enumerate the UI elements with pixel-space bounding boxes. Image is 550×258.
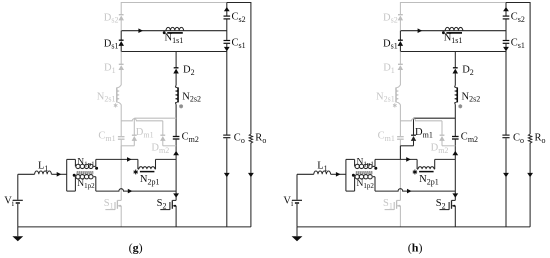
- arrow current Cs1 down (h): [503, 47, 509, 51]
- svg-text:S2: S2: [436, 198, 446, 210]
- wire Dm2 return (h): [442, 145, 455, 147]
- wire N2p1-node (h): [435, 158, 456, 160]
- wire top rail right (h): [506, 2, 530, 4]
- wire Cs2-Cs1 segment (g): [226, 20, 228, 41]
- diode D2 (h): [453, 67, 458, 69]
- wire Ds1 rail (h): [400, 51, 506, 53]
- arrow current S-rail (g): [128, 189, 133, 194]
- svg-text:Ds1: Ds1: [383, 38, 398, 50]
- svg-text:Ds2: Ds2: [383, 12, 398, 24]
- star N2s1 polarity (h): [394, 103, 396, 107]
- wire Ds1 rail (g): [121, 51, 227, 53]
- wire top rail gray (g): [121, 2, 227, 4]
- svg-text:Cs2: Cs2: [232, 12, 246, 24]
- wire Dm2 branch upper (g): [162, 121, 164, 135]
- svg-text:Dm2: Dm2: [431, 142, 449, 154]
- ground (h): [296, 227, 298, 236]
- wire clamp column segment (g): [120, 146, 122, 160]
- wire N1p2 left riser (h): [354, 177, 356, 191]
- wire Dm1 return (h): [400, 145, 413, 147]
- resistor Ro (g): [249, 134, 252, 143]
- svg-text:D1: D1: [383, 63, 395, 75]
- wire N2p1 step up (h): [434, 159, 436, 169]
- svg-text:Ds1: Ds1: [104, 38, 119, 50]
- svg-text:D2: D2: [462, 64, 474, 76]
- core T1 (g): [76, 171, 93, 174]
- wire Ds2-node (g): [120, 20, 122, 31]
- wire D1 upper (h): [399, 52, 401, 65]
- wire Dm1 top link (h): [414, 117, 456, 119]
- wire input left (h): [297, 173, 314, 175]
- diode Dm1 (g): [132, 134, 137, 136]
- wire N1p2-S2 with hop (g): [96, 189, 176, 191]
- capacitor Cm1 (g): [118, 136, 125, 138]
- wire Vi upper (h): [296, 174, 298, 200]
- wire N2p1 step down (g): [137, 159, 139, 169]
- wire N1p1 right riser (h): [374, 159, 376, 166]
- capacitor Cm2 (h): [452, 136, 459, 138]
- wire N1s1 rail (g): [121, 30, 227, 32]
- svg-text:Cm1: Cm1: [98, 131, 115, 143]
- wire Cm1-S1 (h): [399, 140, 401, 201]
- wire Cm2-node (h): [454, 140, 456, 160]
- wire N2s1-Cm1 (g): [120, 105, 122, 137]
- arrow current S2 down (h): [452, 193, 458, 197]
- arrow current Co down (g): [224, 173, 230, 177]
- wire Cs1 bottom segment (h): [505, 44, 507, 52]
- star N2p1 polarity (g): [135, 170, 137, 175]
- transistor S2 (g): [172, 199, 176, 201]
- arrow current Cs1 down (g): [224, 47, 230, 51]
- svg-text:Dm2: Dm2: [151, 142, 169, 154]
- svg-text:N2s2: N2s2: [182, 91, 201, 103]
- wire Cm2-node (g): [175, 140, 177, 160]
- inductor L1 (g): [35, 171, 52, 174]
- winding N2p1 (h): [418, 167, 434, 169]
- star N2s2 polarity (g): [180, 104, 182, 108]
- diode D1 (g): [119, 63, 124, 65]
- wire Dm1 branch lower (h): [413, 140, 415, 145]
- wire D2-N2s2 (h): [454, 73, 456, 85]
- winding N1p1 (g): [75, 164, 77, 166]
- svg-text:S1: S1: [383, 198, 393, 210]
- wire Dm1 branch upper (h): [413, 118, 415, 135]
- wire Ds1 upper (h): [399, 31, 401, 41]
- svg-text:N2p1: N2p1: [419, 174, 439, 186]
- diode Ds2 (g): [119, 14, 124, 16]
- svg-text:(g): (g): [129, 241, 143, 255]
- wire D2 stub (h): [454, 52, 456, 68]
- wire N1p1-N2p1 (h): [375, 158, 417, 160]
- arrow current Ro down (g): [248, 173, 254, 177]
- winding N1p2 (h): [354, 176, 357, 178]
- wire N1p1 left riser (g): [74, 159, 76, 166]
- wire Dm1 return (g): [121, 145, 134, 147]
- arrow current N2p1 (g): [127, 157, 132, 162]
- svg-text:N1p2: N1p2: [77, 179, 95, 190]
- wire Ds1 lower (g): [120, 45, 122, 51]
- wire Dm2 link with hop (h): [400, 119, 442, 121]
- capacitor Cs1 (g): [224, 40, 231, 42]
- winding N2s2 (g): [174, 85, 177, 87]
- wire Ro column lower (g): [250, 143, 252, 227]
- svg-text:Cm2: Cm2: [182, 132, 199, 144]
- wire Ro column upper (h): [529, 2, 531, 134]
- wire Cm1-S1 (g): [120, 140, 122, 201]
- svg-text:Cs1: Cs1: [511, 38, 525, 50]
- winding N1s1 (g): [166, 27, 184, 30]
- arrow current input (h): [336, 172, 341, 177]
- core bar N1s1 (h): [446, 32, 462, 34]
- wire Dm2 branch upper (h): [441, 121, 443, 135]
- wire Dm2 return (g): [163, 145, 176, 147]
- svg-text:N1p1: N1p1: [357, 158, 375, 169]
- wire primary bracket (g): [66, 159, 68, 191]
- diode Dm1 (h): [411, 134, 416, 136]
- diode Dm2 (h): [440, 134, 445, 136]
- wire Dm2 branch lower (h): [441, 140, 443, 145]
- dot N1p1 polarity (g): [95, 167, 98, 170]
- wire N1p2 right riser (g): [95, 177, 97, 191]
- wire N2p1 step up (g): [155, 159, 157, 169]
- wire primary bracket (h): [345, 159, 347, 191]
- svg-text:D2: D2: [183, 64, 195, 76]
- svg-text:(h): (h): [408, 241, 423, 255]
- wire Cs2 top segment (h): [505, 3, 507, 16]
- wire D2-N2s2 (g): [175, 73, 177, 85]
- dot N1s1 polarity (h): [442, 31, 445, 34]
- wire N2p1 step down (h): [416, 159, 418, 169]
- arrow current N1s1 rail (g): [138, 28, 143, 33]
- svg-text:D1: D1: [104, 63, 116, 75]
- wire Ro column upper (g): [250, 2, 252, 134]
- wire clamp column segment (h): [399, 146, 401, 160]
- inductor L1 (h): [314, 171, 331, 174]
- star N2s2 polarity (h): [459, 104, 461, 108]
- core T1 (h): [356, 171, 373, 174]
- svg-text:N1s1: N1s1: [165, 32, 184, 44]
- capacitor Cs1 (h): [503, 40, 510, 42]
- diode D1 (h): [398, 63, 403, 65]
- svg-text:L1: L1: [38, 160, 48, 172]
- battery Vi plates (g): [13, 199, 23, 201]
- wire input right (g): [51, 173, 66, 175]
- schematic figure (h): [283, 2, 545, 255]
- arrow current N2p1 (h): [406, 157, 411, 162]
- core bar N1s1 (g): [167, 32, 183, 34]
- transistor S2 (h): [452, 199, 456, 201]
- winding N2s2 (h): [454, 85, 457, 87]
- diode Ds2 (h): [398, 14, 403, 16]
- svg-text:Cs1: Cs1: [232, 38, 246, 50]
- wire Ds2 upper (h): [399, 2, 401, 15]
- wire D1-N2s1 (h): [399, 70, 401, 86]
- resistor Ro (h): [528, 134, 531, 143]
- capacitor Cs2 (g): [224, 15, 231, 17]
- core bar N2s2 (h): [456, 87, 458, 102]
- arrow current Ro down (h): [527, 173, 533, 177]
- wire Co column upper (g): [226, 52, 228, 135]
- core bar N2p1 (h): [419, 171, 434, 173]
- diode Dm2 (g): [160, 134, 165, 136]
- arrow current Cm2 up (h): [452, 151, 458, 155]
- svg-text:N2p1: N2p1: [140, 174, 160, 186]
- winding N2s1 (g): [119, 85, 121, 87]
- wire N2p1-node (g): [156, 158, 177, 160]
- schematic figure (g): [4, 2, 266, 255]
- wire bottom bus (g): [18, 226, 251, 228]
- wire N1s1 rail (h): [400, 30, 506, 32]
- arrow current S-rail (h): [407, 189, 412, 194]
- wire node-S2 (g): [175, 159, 177, 200]
- svg-text:N1s1: N1s1: [444, 32, 463, 44]
- battery Vi plates (h): [292, 199, 302, 201]
- capacitor Co (h): [502, 134, 509, 136]
- wire Cs2 top segment (g): [226, 3, 228, 16]
- transistor S1 (g): [117, 199, 121, 201]
- wire Ds2-node (h): [399, 20, 401, 31]
- wire Vi lower (h): [296, 204, 298, 227]
- wire node-S2 (h): [454, 159, 456, 200]
- ground (g): [17, 227, 19, 236]
- svg-text:Ro: Ro: [255, 133, 266, 145]
- capacitor Cm2 (g): [173, 136, 180, 138]
- winding N1p1 (h): [355, 164, 357, 166]
- wire input left (g): [18, 173, 35, 175]
- wire D1-N2s1 (g): [120, 70, 122, 86]
- wire N2s1-Cm1 (h): [399, 105, 401, 137]
- arrow current Cs2 up (h): [503, 7, 509, 11]
- svg-text:Vi: Vi: [283, 195, 294, 207]
- svg-text:Ds2: Ds2: [104, 12, 119, 24]
- svg-text:N2s1: N2s1: [376, 91, 395, 103]
- wire Co column upper (h): [505, 52, 507, 135]
- wire D1 upper (g): [120, 52, 122, 65]
- svg-text:Cs2: Cs2: [511, 12, 525, 24]
- diode Ds1 (g): [119, 39, 124, 41]
- arrow current S2 down (g): [173, 193, 179, 197]
- capacitor Cm1 (h): [397, 136, 404, 138]
- wire bottom bus (h): [297, 226, 530, 228]
- core bar N2s2 (g): [177, 87, 179, 102]
- svg-text:Cm2: Cm2: [461, 132, 478, 144]
- svg-text:S2: S2: [157, 198, 167, 210]
- capacitor Co (g): [223, 134, 230, 136]
- svg-text:Co: Co: [513, 133, 524, 145]
- wire N1p2 right riser (h): [374, 177, 376, 191]
- winding N1p2 (g): [74, 176, 77, 178]
- wire input right (h): [331, 173, 346, 175]
- wire Co column lower (g): [226, 138, 228, 227]
- svg-text:Dm1: Dm1: [415, 127, 433, 139]
- wire top rail right (g): [227, 2, 251, 4]
- wire Dm2 link with hop (g): [121, 119, 163, 121]
- diode Ds1 (h): [398, 39, 403, 41]
- wire Vi lower (g): [17, 204, 19, 227]
- winding N1s1 (h): [445, 27, 463, 30]
- wire N1p1-N2p1 (g): [96, 158, 138, 160]
- winding N2p1 (g): [139, 167, 155, 169]
- wire N2s2-Cm2 (g): [175, 105, 177, 136]
- wire N1p1 left riser (h): [354, 159, 356, 166]
- arrow current Co down (h): [503, 173, 509, 177]
- svg-text:L1: L1: [317, 160, 327, 172]
- capacitor Cs2 (h): [503, 15, 510, 17]
- star N2s1 polarity (g): [115, 103, 117, 107]
- wire N1p1 right riser (g): [95, 159, 97, 166]
- svg-text:N2s2: N2s2: [462, 91, 481, 103]
- wire Dm2 branch lower (g): [162, 140, 164, 145]
- wire Dm1 branch upper (g): [133, 118, 135, 135]
- wire Cs1 bottom segment (g): [226, 44, 228, 52]
- core bar N2s1 (g): [116, 87, 118, 102]
- arrow current Cm2 up (g): [173, 151, 179, 155]
- wire Cs2-Cs1 segment (h): [505, 20, 507, 41]
- wire Ds1 lower (h): [399, 45, 401, 51]
- wire Vi upper (g): [17, 174, 19, 200]
- winding N2s1 (h): [398, 85, 400, 87]
- wire Ds1 upper (g): [120, 31, 122, 41]
- svg-text:N1p2: N1p2: [357, 179, 375, 190]
- dot N1s1 polarity (g): [163, 31, 166, 34]
- wire N2s2-Cm2 (h): [454, 105, 456, 136]
- wire top rail gray (h): [400, 2, 506, 4]
- diode D2 (g): [174, 67, 179, 69]
- svg-text:N1p1: N1p1: [77, 158, 95, 169]
- wire N1p2-S2 with hop (h): [375, 189, 455, 191]
- dot N1p1 polarity (h): [374, 167, 377, 170]
- core bar N2s1 (h): [395, 87, 397, 102]
- wire Dm1 top link (g): [134, 117, 176, 119]
- svg-text:Vi: Vi: [4, 195, 15, 207]
- arrow current input (g): [57, 172, 62, 177]
- wire N1p2 left riser (g): [74, 177, 76, 191]
- svg-text:Ro: Ro: [535, 133, 546, 145]
- wire D2 stub (g): [175, 52, 177, 68]
- svg-text:Dm1: Dm1: [136, 127, 154, 139]
- star N2p1 polarity (h): [414, 170, 416, 175]
- wire Dm1 branch lower (g): [133, 140, 135, 145]
- arrow current N1s1 rail (h): [418, 28, 423, 33]
- svg-text:Cm1: Cm1: [378, 131, 395, 143]
- dot N1p2 polarity (g): [73, 174, 76, 177]
- wire Ro column lower (h): [529, 143, 531, 227]
- svg-text:N2s1: N2s1: [97, 91, 116, 103]
- core bar N2p1 (g): [140, 171, 155, 173]
- svg-text:S1: S1: [104, 198, 114, 210]
- svg-text:Co: Co: [234, 133, 245, 145]
- dot N1p2 polarity (h): [352, 174, 355, 177]
- arrow current Cs2 up (g): [224, 7, 230, 11]
- wire Co column lower (h): [505, 138, 507, 227]
- transistor S1 (h): [397, 199, 401, 201]
- wire Ds2 upper (g): [120, 2, 122, 15]
